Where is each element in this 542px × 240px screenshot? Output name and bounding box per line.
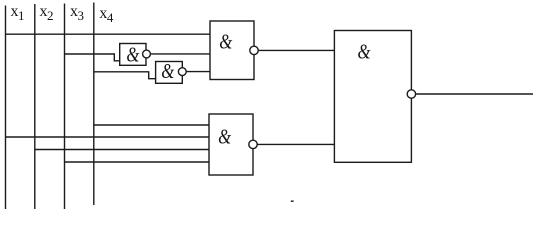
net x2 vertical line <box>34 4 36 209</box>
NAND gate G3 body <box>210 21 254 80</box>
svg-text:&: & <box>219 31 232 54</box>
wire x4 to inverter D2 input (stepped) <box>94 72 156 79</box>
inverter D2 output bubble <box>178 68 186 76</box>
NAND G4 function label & <box>218 126 231 149</box>
svg-text:&: & <box>358 41 371 64</box>
svg-text:&: & <box>218 126 231 149</box>
wire inverter D1 output to NAND G3 input 2 <box>146 53 210 55</box>
net x3 vertical line <box>64 4 66 210</box>
net x1 vertical line <box>5 6 7 210</box>
inverter D1 output bubble <box>143 50 151 58</box>
wire x4 to NAND G4 input 1 <box>94 124 209 126</box>
inverter D2 function label & <box>161 60 174 83</box>
NAND G3 output bubble <box>250 46 258 54</box>
wire x1 to NAND G3 input 1 <box>6 33 211 35</box>
inverter D1 function label & <box>126 44 139 67</box>
inverter D1 body <box>120 44 146 66</box>
wire x3 to NAND G4 input 4 <box>65 161 210 163</box>
wire x2 to NAND G4 input 3 <box>35 149 209 151</box>
wire NAND G5 output <box>411 93 533 95</box>
NAND G3 function label & <box>219 31 232 54</box>
wire NAND G4 output to NAND G5 input 2 <box>253 143 334 145</box>
NAND G5 function label & <box>358 41 371 64</box>
inverter D2 body <box>156 62 183 84</box>
NAND gate G5 body <box>334 31 411 163</box>
wire x3 to inverter D1 input (stepped) <box>65 54 120 61</box>
wire NAND G3 output to NAND G5 input 1 <box>254 49 334 51</box>
NAND G4 output bubble <box>249 140 257 148</box>
NAND gate G4 body <box>209 114 253 175</box>
svg-text:&: & <box>161 60 174 83</box>
stray dot mark <box>291 200 294 202</box>
net x4 vertical line <box>93 3 95 206</box>
wire inverter D2 output to NAND G3 input 3 <box>182 71 210 73</box>
svg-text:&: & <box>126 44 139 67</box>
wire x1 to NAND G4 input 2 <box>6 136 210 138</box>
NAND G5 output bubble <box>407 90 415 98</box>
